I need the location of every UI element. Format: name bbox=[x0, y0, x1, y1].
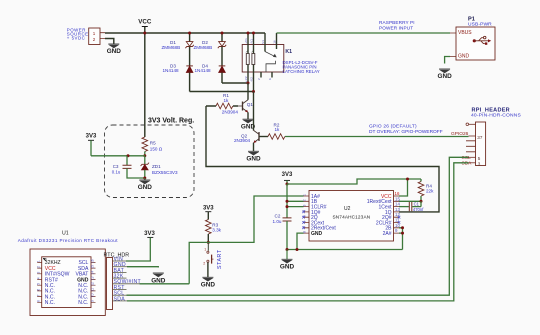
wire 1B tie high bbox=[287, 200, 304, 202]
pin SCL rtc bbox=[113, 291, 127, 297]
wire 1Q output loop to R1 bbox=[206, 106, 439, 212]
pin RST bbox=[113, 285, 127, 291]
IC U2 right pin stubs bbox=[394, 196, 400, 233]
pin RPI unconnected stubs bbox=[466, 141, 476, 152]
svg-text:1N4148: 1N4148 bbox=[195, 68, 212, 73]
junction 2A bbox=[401, 232, 404, 235]
diode D3 1N4148 bbox=[163, 63, 193, 91]
svg-text:P1: P1 bbox=[468, 17, 475, 23]
junction 1CLR bbox=[286, 205, 289, 208]
diode D2 zener ZMM68B bbox=[194, 33, 227, 66]
junction D2 top bbox=[221, 32, 224, 35]
svg-text:3V3: 3V3 bbox=[86, 133, 97, 139]
svg-text:3: 3 bbox=[478, 162, 481, 167]
capacitor C3 0.1u bbox=[112, 156, 145, 178]
transistor Q1 2N3904 bbox=[222, 100, 254, 115]
svg-text:POWER INPUT: POWER INPUT bbox=[379, 25, 413, 30]
pin SQW/#INT bbox=[113, 279, 142, 285]
svg-text:ZD1: ZD1 bbox=[152, 164, 161, 169]
ground P1 bbox=[437, 69, 452, 80]
connector J power source bbox=[89, 28, 105, 45]
junction relay coil pins on rail bbox=[247, 32, 256, 35]
svg-text:BZX55C3V3: BZX55C3V3 bbox=[152, 170, 178, 175]
junction 2B bbox=[401, 226, 404, 229]
ground START bbox=[201, 277, 216, 288]
wire Q1 emitter to ground bbox=[247, 112, 249, 119]
svg-text:GND: GND bbox=[138, 184, 153, 191]
svg-text:RASPBERRY PI: RASPBERRY PI bbox=[379, 20, 415, 25]
relay K1 switch output pin to VBUS bbox=[276, 33, 278, 49]
connector RPI_HEADER box bbox=[471, 107, 521, 165]
junction GND drop bbox=[296, 248, 299, 251]
svg-text:3V3: 3V3 bbox=[144, 231, 155, 237]
wire SDA from RPI to RTC bbox=[127, 163, 469, 301]
junction R4 bottom bbox=[420, 200, 423, 203]
relay K1 switch lever bbox=[265, 52, 277, 58]
wire relay output to P1 VBUS bbox=[277, 32, 451, 34]
svg-text:GND: GND bbox=[201, 282, 216, 289]
connector P1 USB-PWR box bbox=[450, 17, 495, 61]
pin GND bbox=[113, 262, 128, 268]
label POWER SOURCE + 5VDC bbox=[67, 28, 89, 41]
IC U2 right pin names bbox=[367, 194, 392, 237]
svg-text:K1: K1 bbox=[285, 49, 292, 55]
junction R5 bottom bbox=[143, 154, 146, 157]
svg-text:VBUS: VBUS bbox=[458, 30, 472, 36]
svg-text:GND: GND bbox=[280, 264, 295, 271]
IC U2 right pin numbers bbox=[395, 191, 401, 233]
ground Q2 bbox=[246, 151, 261, 162]
junction coil A / D4 node bbox=[247, 82, 250, 85]
junction VCC rail bbox=[143, 32, 146, 35]
relay K1 coil pins bottom bbox=[248, 65, 254, 92]
pin BAT bbox=[113, 268, 127, 274]
resistor R2 1k bbox=[268, 122, 285, 139]
wire D3 anode to relay coil B node bbox=[190, 91, 254, 93]
IC U1 right pin stubs and numbers bbox=[90, 259, 95, 302]
label 3V3 Volt. Reg. bbox=[148, 118, 194, 125]
svg-text:GPIO26: GPIO26 bbox=[451, 131, 469, 137]
svg-text:8: 8 bbox=[37, 300, 41, 302]
ground power connector bbox=[107, 44, 122, 55]
svg-text:13: 13 bbox=[395, 207, 400, 212]
wire 3V3 node horizontal bbox=[91, 155, 145, 157]
IC U1 outer module box bbox=[18, 230, 118, 315]
svg-text:2N3904: 2N3904 bbox=[234, 138, 251, 143]
diode D4 1N4148 bbox=[195, 63, 226, 83]
wire Q1 collector bbox=[247, 83, 249, 100]
power symbol VCC bbox=[138, 19, 152, 27]
wire 3V3 down to C2 bbox=[286, 184, 288, 218]
svg-text:2: 2 bbox=[303, 199, 307, 201]
svg-text:C3: C3 bbox=[113, 164, 119, 169]
svg-text:8: 8 bbox=[303, 231, 307, 233]
wire C2 bottom to ground line bbox=[286, 221, 288, 250]
svg-text:6: 6 bbox=[268, 78, 272, 80]
svg-text:2A#: 2A# bbox=[383, 231, 392, 237]
svg-text:RPI_HEADER: RPI_HEADER bbox=[472, 107, 510, 113]
IC U2 SN74AHC123AN box bbox=[309, 191, 394, 242]
svg-text:150 Ω: 150 Ω bbox=[150, 146, 163, 151]
svg-text:6: 6 bbox=[37, 289, 41, 291]
svg-text:22k: 22k bbox=[426, 189, 434, 194]
junction 3V3 U2 node bbox=[286, 183, 289, 186]
svg-text:16: 16 bbox=[273, 40, 277, 44]
svg-text:1N4148: 1N4148 bbox=[163, 68, 180, 73]
junction ZD1 bottom / C3 bbox=[143, 177, 146, 180]
wire power pin2 to ground bbox=[105, 39, 114, 45]
svg-text:3V3: 3V3 bbox=[282, 172, 293, 178]
relay K1 coil pins top bbox=[248, 33, 254, 54]
relay K1 switch contact bbox=[266, 61, 275, 72]
wire U2 ground return bbox=[287, 249, 403, 251]
svg-text:GND: GND bbox=[458, 53, 470, 59]
resistor R1 1k bbox=[206, 93, 238, 109]
svg-text:GND: GND bbox=[107, 48, 122, 55]
svg-text:-V2: -V2 bbox=[249, 77, 253, 82]
svg-text:15: 15 bbox=[90, 265, 94, 269]
wire P1 GND pin to ground bbox=[445, 57, 450, 64]
IC U2 left pin stubs bbox=[304, 196, 310, 233]
pin 32K bbox=[113, 274, 127, 280]
svg-text:40-PIN-HDR-CONNS: 40-PIN-HDR-CONNS bbox=[471, 113, 521, 119]
svg-text:Adafruit DS3231 Precision RTC: Adafruit DS3231 Precision RTC Breakout bbox=[18, 238, 118, 243]
svg-text:5: 5 bbox=[37, 283, 41, 285]
svg-text:N.C.: N.C. bbox=[45, 300, 55, 306]
svg-text:3.3k: 3.3k bbox=[212, 228, 221, 233]
label relay part number bbox=[283, 60, 320, 74]
svg-text:16: 16 bbox=[395, 191, 400, 196]
svg-text:1: 1 bbox=[303, 194, 307, 196]
transistor Q2 2N3904 mirrored bbox=[234, 130, 268, 143]
svg-text:12: 12 bbox=[90, 282, 94, 286]
svg-text:2: 2 bbox=[37, 266, 41, 268]
wire VCC stem to R5 bbox=[144, 27, 146, 138]
label RASPBERRY PI POWER INPUT bbox=[379, 20, 415, 30]
IC U1 left pin names bbox=[45, 260, 70, 306]
svg-text:C2: C2 bbox=[275, 214, 281, 219]
wire SCL from RPI to RTC bbox=[127, 157, 469, 295]
svg-text:GND: GND bbox=[437, 73, 452, 80]
wire U2 GND pin drop bbox=[297, 233, 304, 249]
junction C2 ground bbox=[286, 248, 289, 251]
svg-text:SN74AHC123AN: SN74AHC123AN bbox=[333, 215, 371, 220]
power symbol 3V3 regulator out bbox=[86, 133, 97, 156]
junction coil B / D3 node bbox=[252, 90, 255, 93]
wire R2 to GPIO26 bbox=[285, 136, 469, 138]
svg-text:1.0u: 1.0u bbox=[273, 219, 282, 224]
wire 1Rext pin to R4 bottom bbox=[399, 200, 421, 202]
wire SQW to START node bbox=[140, 283, 190, 285]
svg-text:5: 5 bbox=[478, 156, 481, 161]
relay K1 box bbox=[242, 45, 292, 73]
svg-text:0.1u: 0.1u bbox=[112, 170, 121, 175]
wire VCC rail 5V bbox=[105, 32, 265, 34]
svg-text:GND: GND bbox=[311, 231, 323, 237]
svg-text:7: 7 bbox=[37, 294, 41, 296]
svg-text:14: 14 bbox=[90, 271, 94, 275]
voltage regulator dashed box bbox=[105, 125, 195, 198]
capacitor C1 470nf bbox=[399, 201, 424, 212]
svg-text:U2: U2 bbox=[344, 206, 351, 212]
wire VCC pin16 riser bbox=[399, 179, 408, 196]
IC U2 left pin numbers bbox=[303, 194, 307, 233]
svg-text:VCC: VCC bbox=[138, 19, 152, 26]
svg-text:C1: C1 bbox=[414, 201, 420, 206]
wire RTC GND bbox=[127, 266, 158, 269]
pin RPI top with circle bbox=[466, 123, 476, 126]
wire 1CLR tie high bbox=[287, 206, 304, 208]
svg-text:USB-PWR: USB-PWR bbox=[468, 22, 492, 28]
wire 3V3 to R4 and VCC pin bbox=[287, 179, 421, 184]
IC U2 left pin names bbox=[311, 194, 336, 237]
svg-text:16: 16 bbox=[90, 259, 94, 263]
junction 1B bbox=[286, 200, 289, 203]
svg-text:2: 2 bbox=[203, 262, 205, 266]
diode ZD1 zener BZX55C3V3 bbox=[141, 156, 178, 179]
wire 2B 2A tie low bbox=[399, 228, 403, 250]
wire D4 anode to relay coil A node bbox=[222, 82, 248, 84]
ground voltage regulator bbox=[138, 178, 153, 191]
icon USB logo bbox=[473, 36, 492, 44]
svg-text:1k: 1k bbox=[224, 98, 230, 103]
svg-text:2N3904: 2N3904 bbox=[222, 110, 239, 115]
svg-text:N.C.: N.C. bbox=[78, 300, 88, 306]
pin VIN bbox=[113, 256, 127, 262]
svg-text:1: 1 bbox=[37, 260, 41, 262]
svg-text:Q1: Q1 bbox=[247, 102, 254, 107]
svg-text:+V2: +V2 bbox=[244, 76, 248, 82]
resistor R5 150 ohm bbox=[142, 137, 163, 156]
relay K1 coil 1 bbox=[246, 51, 249, 65]
ground Q1 bbox=[241, 119, 256, 130]
power symbol 3V3 at U2 bbox=[282, 172, 293, 184]
svg-text:GPIO 26 (DEFAULT): GPIO 26 (DEFAULT) bbox=[369, 124, 417, 130]
capacitor C2 1.0u bbox=[273, 214, 292, 225]
svg-text:ZMM68B: ZMM68B bbox=[194, 45, 213, 50]
pin SCL 5 bbox=[462, 155, 481, 161]
pin SDA rtc bbox=[113, 296, 128, 302]
svg-text:11: 11 bbox=[90, 288, 94, 292]
wire VIN to 3V3 bbox=[126, 237, 150, 261]
svg-text:LATCHING RELAY: LATCHING RELAY bbox=[283, 69, 320, 74]
relay K1 switch common pin bbox=[264, 33, 266, 52]
svg-text:DT OVERLAY: GPIO-POWEROFF: DT OVERLAY: GPIO-POWEROFF bbox=[369, 129, 443, 135]
wire Q2 collector from coil B node bbox=[253, 92, 255, 131]
pin GPIO26 37 bbox=[451, 131, 483, 140]
svg-text:470nf: 470nf bbox=[413, 207, 424, 212]
ground RTC bbox=[151, 273, 166, 284]
wire START node to SQW and 1A# bbox=[189, 196, 303, 284]
svg-text:1: 1 bbox=[204, 248, 206, 252]
junction VCC riser bbox=[406, 178, 409, 181]
svg-text:START: START bbox=[217, 249, 223, 269]
power symbol 3V3 at R3 bbox=[203, 206, 214, 220]
svg-text:V1: V1 bbox=[261, 40, 265, 44]
relay K1 rotated pin labels bbox=[244, 38, 277, 82]
wire Q2 emitter to ground bbox=[253, 143, 255, 152]
no-connect marks U2 left pins bbox=[302, 211, 305, 230]
resistor R4 22k bbox=[418, 179, 434, 201]
svg-text:GND: GND bbox=[246, 156, 261, 163]
relay K1 bottom stub pins bbox=[261, 72, 272, 78]
svg-text:3: 3 bbox=[303, 205, 307, 207]
IC U1 left pin stubs and numbers bbox=[37, 260, 42, 302]
label GPIO 26 DEFAULT bbox=[369, 124, 443, 136]
junction D1 top bbox=[188, 32, 191, 35]
svg-text:9: 9 bbox=[90, 300, 94, 302]
svg-text:+V1: +V1 bbox=[244, 38, 248, 44]
svg-text:4: 4 bbox=[37, 277, 41, 279]
svg-text:2: 2 bbox=[257, 78, 261, 80]
junction R3 bottom / START bbox=[207, 241, 210, 244]
connector RTC_HDR box bbox=[104, 252, 130, 309]
svg-text:R4: R4 bbox=[426, 183, 432, 188]
power symbol 3V3 at RTC bbox=[144, 231, 155, 237]
svg-text:37: 37 bbox=[477, 135, 483, 140]
svg-text:13: 13 bbox=[90, 276, 94, 280]
svg-text:U1: U1 bbox=[62, 230, 69, 236]
relay K1 coil 2 bbox=[251, 51, 254, 65]
svg-text:-V1: -V1 bbox=[249, 39, 253, 44]
svg-text:R5: R5 bbox=[150, 141, 156, 146]
switch START pushbutton bbox=[203, 242, 223, 277]
ground U2 bbox=[280, 250, 295, 271]
no-connect marks U2 right pins bbox=[398, 216, 401, 224]
IC U1 inner chip box bbox=[42, 257, 91, 308]
svg-text:15: 15 bbox=[395, 196, 400, 201]
svg-text:3V3: 3V3 bbox=[203, 206, 214, 212]
IC U1 right pin names bbox=[75, 260, 89, 306]
svg-text:SDA: SDA bbox=[114, 296, 126, 302]
pin SDA 3 bbox=[462, 160, 481, 166]
diode D1 zener ZMM68B bbox=[162, 33, 194, 66]
svg-text:3: 3 bbox=[37, 272, 41, 274]
svg-text:14: 14 bbox=[395, 202, 400, 207]
svg-text:ZMM68B: ZMM68B bbox=[162, 45, 181, 50]
junction C3 top bbox=[127, 154, 130, 157]
svg-text:+ 5VDC: + 5VDC bbox=[67, 36, 86, 41]
svg-text:10: 10 bbox=[90, 293, 94, 297]
resistor R3 3.3k bbox=[206, 220, 222, 243]
svg-text:1k: 1k bbox=[275, 127, 281, 132]
svg-text:3V3 Volt. Reg.: 3V3 Volt. Reg. bbox=[148, 118, 194, 125]
